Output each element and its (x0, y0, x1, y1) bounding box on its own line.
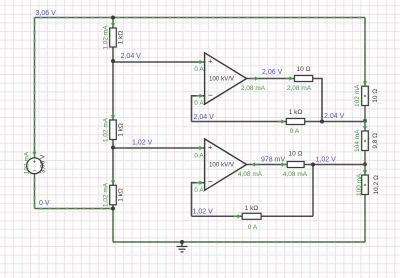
svg-text:2,08 mA: 2,08 mA (241, 85, 266, 92)
arrow U2 - input current (196, 181, 203, 185)
wire node B to op-amp U2 + input (113, 147, 205, 149)
resistor R6 10,2 Ω (362, 175, 369, 195)
arrow R9 current (left) (280, 162, 287, 166)
wire 0 V horizontal (35, 208, 114, 210)
junction divider / 0V wire (111, 207, 115, 211)
svg-text:3,06 V: 3,06 V (36, 10, 57, 17)
svg-text:10 Ω: 10 Ω (297, 66, 311, 73)
label U2 feedback node 1,02 V (193, 209, 214, 216)
label R9 value 10 Ω (289, 151, 303, 158)
svg-text:4,08 mA: 4,08 mA (283, 171, 308, 178)
wire right rail top segment (364, 18, 366, 87)
label R5 current 104 mA (354, 129, 361, 152)
svg-text:1 kΩ: 1 kΩ (245, 205, 259, 212)
label node A 2,04 V (121, 53, 142, 60)
wire right rail segment R4-R5 (364, 106, 366, 132)
svg-text:0 A: 0 A (194, 152, 204, 159)
arrow R7 current (286, 76, 293, 80)
wire U2 output to junction (304, 164, 313, 166)
wire U1 feedback node left segment (192, 121, 287, 123)
svg-text:0 A: 0 A (290, 128, 300, 135)
label V1 current 103 mA (24, 151, 31, 174)
svg-text:1,02 mA: 1,02 mA (103, 25, 110, 50)
wire divider top stub (112, 18, 114, 29)
svg-text:1 kΩ: 1 kΩ (118, 31, 125, 45)
svg-text:9,8 Ω: 9,8 Ω (372, 133, 379, 149)
label R8 value 1 kΩ (289, 109, 303, 116)
label U1 + input 0 A (194, 66, 204, 73)
svg-text:4,08 mA: 4,08 mA (238, 171, 263, 178)
wire U1 output drop to feedback node (313, 79, 322, 122)
label U2 + input 0 A (194, 152, 204, 159)
voltage source V1 3,06 V (27, 158, 43, 175)
resistor R7 10 Ω (U1 output) (295, 76, 313, 82)
wire 1,02 V node to right rail (313, 164, 365, 166)
label U1 output current 2,08 mA (241, 85, 266, 92)
svg-text:1,02 mA: 1,02 mA (103, 117, 110, 142)
label 0 V net (39, 200, 50, 207)
arrow V1 current up (32, 150, 36, 157)
arrow U1 + input current (196, 60, 203, 64)
label R4 current 102 mA (354, 84, 361, 107)
svg-text:100 mA: 100 mA (356, 173, 363, 196)
svg-text:102 mA: 102 mA (354, 84, 361, 107)
resistor R3 1 kΩ (110, 185, 117, 205)
label U2 output current 4,08 mA (238, 171, 263, 178)
wire top rail 3,06 V net (35, 17, 366, 19)
op-amp U1 (205, 53, 247, 104)
arrow R4 current down (363, 78, 367, 85)
wire divider R1 to node A (112, 47, 114, 61)
arrow U2 + input current (196, 146, 203, 150)
arrow U1 output current (252, 76, 259, 80)
wire right rail bottom segment (364, 195, 366, 243)
arrow R3 current down (111, 177, 115, 184)
label R3 current 1,02 mA (103, 182, 110, 207)
junction right rail 2,04 V (363, 119, 367, 123)
svg-text:1,02 V: 1,02 V (193, 209, 214, 216)
wire divider node A to R2 (112, 61, 114, 120)
label right rail node 1,02 V (316, 156, 337, 163)
svg-text:1,02 V: 1,02 V (132, 139, 153, 146)
node B junction 1,02 V (111, 146, 115, 150)
wire U1 feedback node right segment (305, 121, 365, 123)
label R9 current 4,08 mA (283, 171, 308, 178)
svg-text:2,04 V: 2,04 V (194, 114, 215, 121)
label V1 value 3,06 V (40, 154, 47, 173)
label R8 current 0 A (290, 128, 300, 135)
wire right rail segment R5-R6 (364, 151, 366, 176)
wire op-amp U1 - input stub (192, 96, 205, 122)
wire U2 feedback riser (312, 165, 314, 217)
svg-text:2,04 V: 2,04 V (121, 53, 142, 60)
label R2 current 1,02 mA (103, 117, 110, 142)
label U1 - input 0 A (194, 100, 204, 107)
junction right rail 1,02 V (363, 162, 367, 166)
wire divider R3 to 0V (112, 205, 114, 209)
resistor R4 10 Ω (362, 86, 369, 105)
label R1 current 1,02 mA (103, 25, 110, 50)
label R3 value 1 kΩ (118, 188, 125, 202)
label R10 current 0 A (248, 224, 258, 231)
op-amp U2 (205, 139, 247, 190)
svg-text:1,02 V: 1,02 V (316, 156, 337, 163)
svg-text:3,06 V: 3,06 V (40, 154, 47, 173)
svg-text:1,02 mA: 1,02 mA (103, 182, 110, 207)
svg-text:10 Ω: 10 Ω (289, 151, 303, 158)
svg-text:978 mV: 978 mV (261, 156, 285, 163)
svg-text:2,08 mA: 2,08 mA (287, 85, 312, 92)
arrow R1 current down (111, 20, 115, 27)
svg-text:2,04 V: 2,04 V (324, 113, 345, 120)
svg-text:0 A: 0 A (194, 100, 204, 107)
wire left rail lower (source to 0V) (34, 174, 36, 209)
wire divider R2 to node B (112, 140, 114, 148)
wire bottom rail (113, 241, 365, 243)
label R7 value 10 Ω (297, 66, 311, 73)
label net 3,06 V (top rail) (36, 10, 57, 17)
wire U2 output (247, 164, 288, 166)
label U2 - input 0 A (194, 187, 204, 194)
svg-text:0 A: 0 A (194, 187, 204, 194)
arrow U2 output current (left) (252, 162, 259, 166)
wire op-amp U2 - input stub (192, 183, 205, 217)
arrow R10 current (234, 214, 241, 218)
svg-text:−: − (208, 176, 213, 186)
resistor R1 1 kΩ (110, 28, 117, 47)
label R7 current 2,08 mA (287, 85, 312, 92)
wire U1 output (247, 78, 295, 80)
resistor R2 1 kΩ (110, 120, 117, 140)
svg-text:10,2 Ω: 10,2 Ω (373, 175, 380, 194)
arrow R8 current (278, 119, 285, 123)
svg-text:+: + (208, 142, 213, 151)
svg-text:1 kΩ: 1 kΩ (118, 123, 125, 137)
wire left rail upper (source to top rail) (34, 18, 36, 159)
wire 0 V drop to bottom rail (112, 209, 114, 243)
ground symbol (177, 242, 188, 252)
svg-text:100 kV/V: 100 kV/V (209, 161, 235, 168)
node A junction 2,04 V (111, 59, 115, 63)
label R10 value 1 kΩ (245, 205, 259, 212)
svg-text:2,06 V: 2,06 V (262, 69, 283, 76)
wire divider node B to R3 (112, 148, 114, 186)
wire node A to op-amp U1 + input (113, 61, 205, 63)
label U1 feedback node 2,04 V (194, 114, 215, 121)
label R1 value 1 kΩ (118, 31, 125, 45)
resistor R10 1 kΩ (U2 feedback) (242, 213, 261, 219)
arrow R6 current down (363, 167, 367, 174)
arrow R5 current down (363, 123, 367, 130)
resistor R5 9,8 Ω (362, 131, 369, 151)
wire U2 feedback left segment (192, 215, 243, 217)
svg-text:+: + (33, 159, 37, 165)
wire U2 feedback right segment (261, 215, 313, 217)
svg-text:1 kΩ: 1 kΩ (289, 109, 303, 116)
svg-text:10 Ω: 10 Ω (372, 89, 379, 103)
label node B 1,02 V (132, 139, 153, 146)
label R2 value 1 kΩ (118, 123, 125, 137)
junction U1 output drop / feedback (320, 120, 324, 124)
svg-text:−: − (208, 90, 213, 100)
svg-text:103 mA: 103 mA (24, 151, 31, 174)
label U1 output 2,06 V (262, 69, 283, 76)
svg-text:0 A: 0 A (194, 66, 204, 73)
arrow U1 - input current (196, 94, 203, 98)
junction U2 output / riser (311, 163, 315, 167)
resistor R8 1 kΩ (U1 feedback) (286, 119, 304, 125)
junction top rail / divider (111, 16, 115, 20)
label U2 output 978 mV (261, 156, 285, 163)
resistor R9 10 Ω (U2 output) (287, 162, 304, 168)
svg-text:100 kV/V: 100 kV/V (209, 75, 235, 82)
label R6 value 10,2 Ω (373, 175, 380, 194)
svg-text:104 mA: 104 mA (354, 129, 361, 152)
junction ground / bottom rail (180, 240, 184, 244)
label R4 value 10 Ω (372, 89, 379, 103)
label R5 value 9,8 Ω (372, 133, 379, 149)
svg-text:−: − (32, 168, 36, 175)
svg-text:1 kΩ: 1 kΩ (118, 188, 125, 202)
arrow R2 current down (111, 112, 115, 119)
svg-text:+: + (208, 56, 213, 65)
svg-text:0 A: 0 A (248, 224, 258, 231)
svg-text:0 V: 0 V (39, 200, 50, 207)
label R6 current 100 mA (356, 173, 363, 196)
label right rail node 2,04 V (324, 113, 345, 120)
